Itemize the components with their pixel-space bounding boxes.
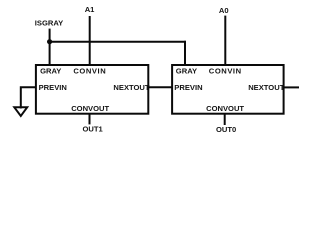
- svg-text:GRAY: GRAY: [176, 66, 197, 75]
- svg-text:CONVOUT: CONVOUT: [206, 104, 244, 113]
- junction dot ISGRAY: [47, 39, 52, 44]
- ground: [14, 107, 27, 116]
- wire A1 to CONVIN pin of U1: [89, 16, 91, 65]
- wire NEXTOUT of U2 output: [284, 86, 299, 88]
- wire CONVOUT of U2 to OUT0: [224, 114, 226, 125]
- wire vertical down to GRAY pin of U2: [184, 41, 186, 65]
- wire ISGRAY horizontal to U2: [50, 41, 186, 43]
- wire ISGRAY vertical to GRAY pin of U1: [49, 29, 51, 65]
- wire CONVOUT of U1 to OUT1: [89, 114, 91, 125]
- svg-text:GRAY: GRAY: [40, 66, 61, 75]
- svg-text:CONVIN: CONVIN: [73, 66, 106, 75]
- svg-text:CONVIN: CONVIN: [209, 66, 242, 75]
- wire NEXTOUT of U1 to PREVIN of U2: [148, 86, 172, 88]
- svg-text:A0: A0: [219, 6, 229, 15]
- block U1 body: [36, 65, 148, 114]
- svg-text:PREVIN: PREVIN: [39, 83, 67, 92]
- block U2 body: [172, 65, 284, 114]
- svg-text:CONVOUT: CONVOUT: [71, 104, 109, 113]
- svg-text:OUT1: OUT1: [83, 124, 104, 133]
- svg-text:PREVIN: PREVIN: [174, 83, 202, 92]
- svg-text:NEXTOUT: NEXTOUT: [113, 83, 150, 92]
- wire PREVIN of U1 to ground: [21, 87, 36, 108]
- wire A0 to CONVIN pin of U2: [224, 16, 226, 65]
- svg-text:ISGRAY: ISGRAY: [35, 19, 63, 28]
- svg-text:NEXTOUT: NEXTOUT: [248, 83, 285, 92]
- svg-text:A1: A1: [85, 5, 95, 14]
- svg-text:OUT0: OUT0: [216, 125, 236, 134]
